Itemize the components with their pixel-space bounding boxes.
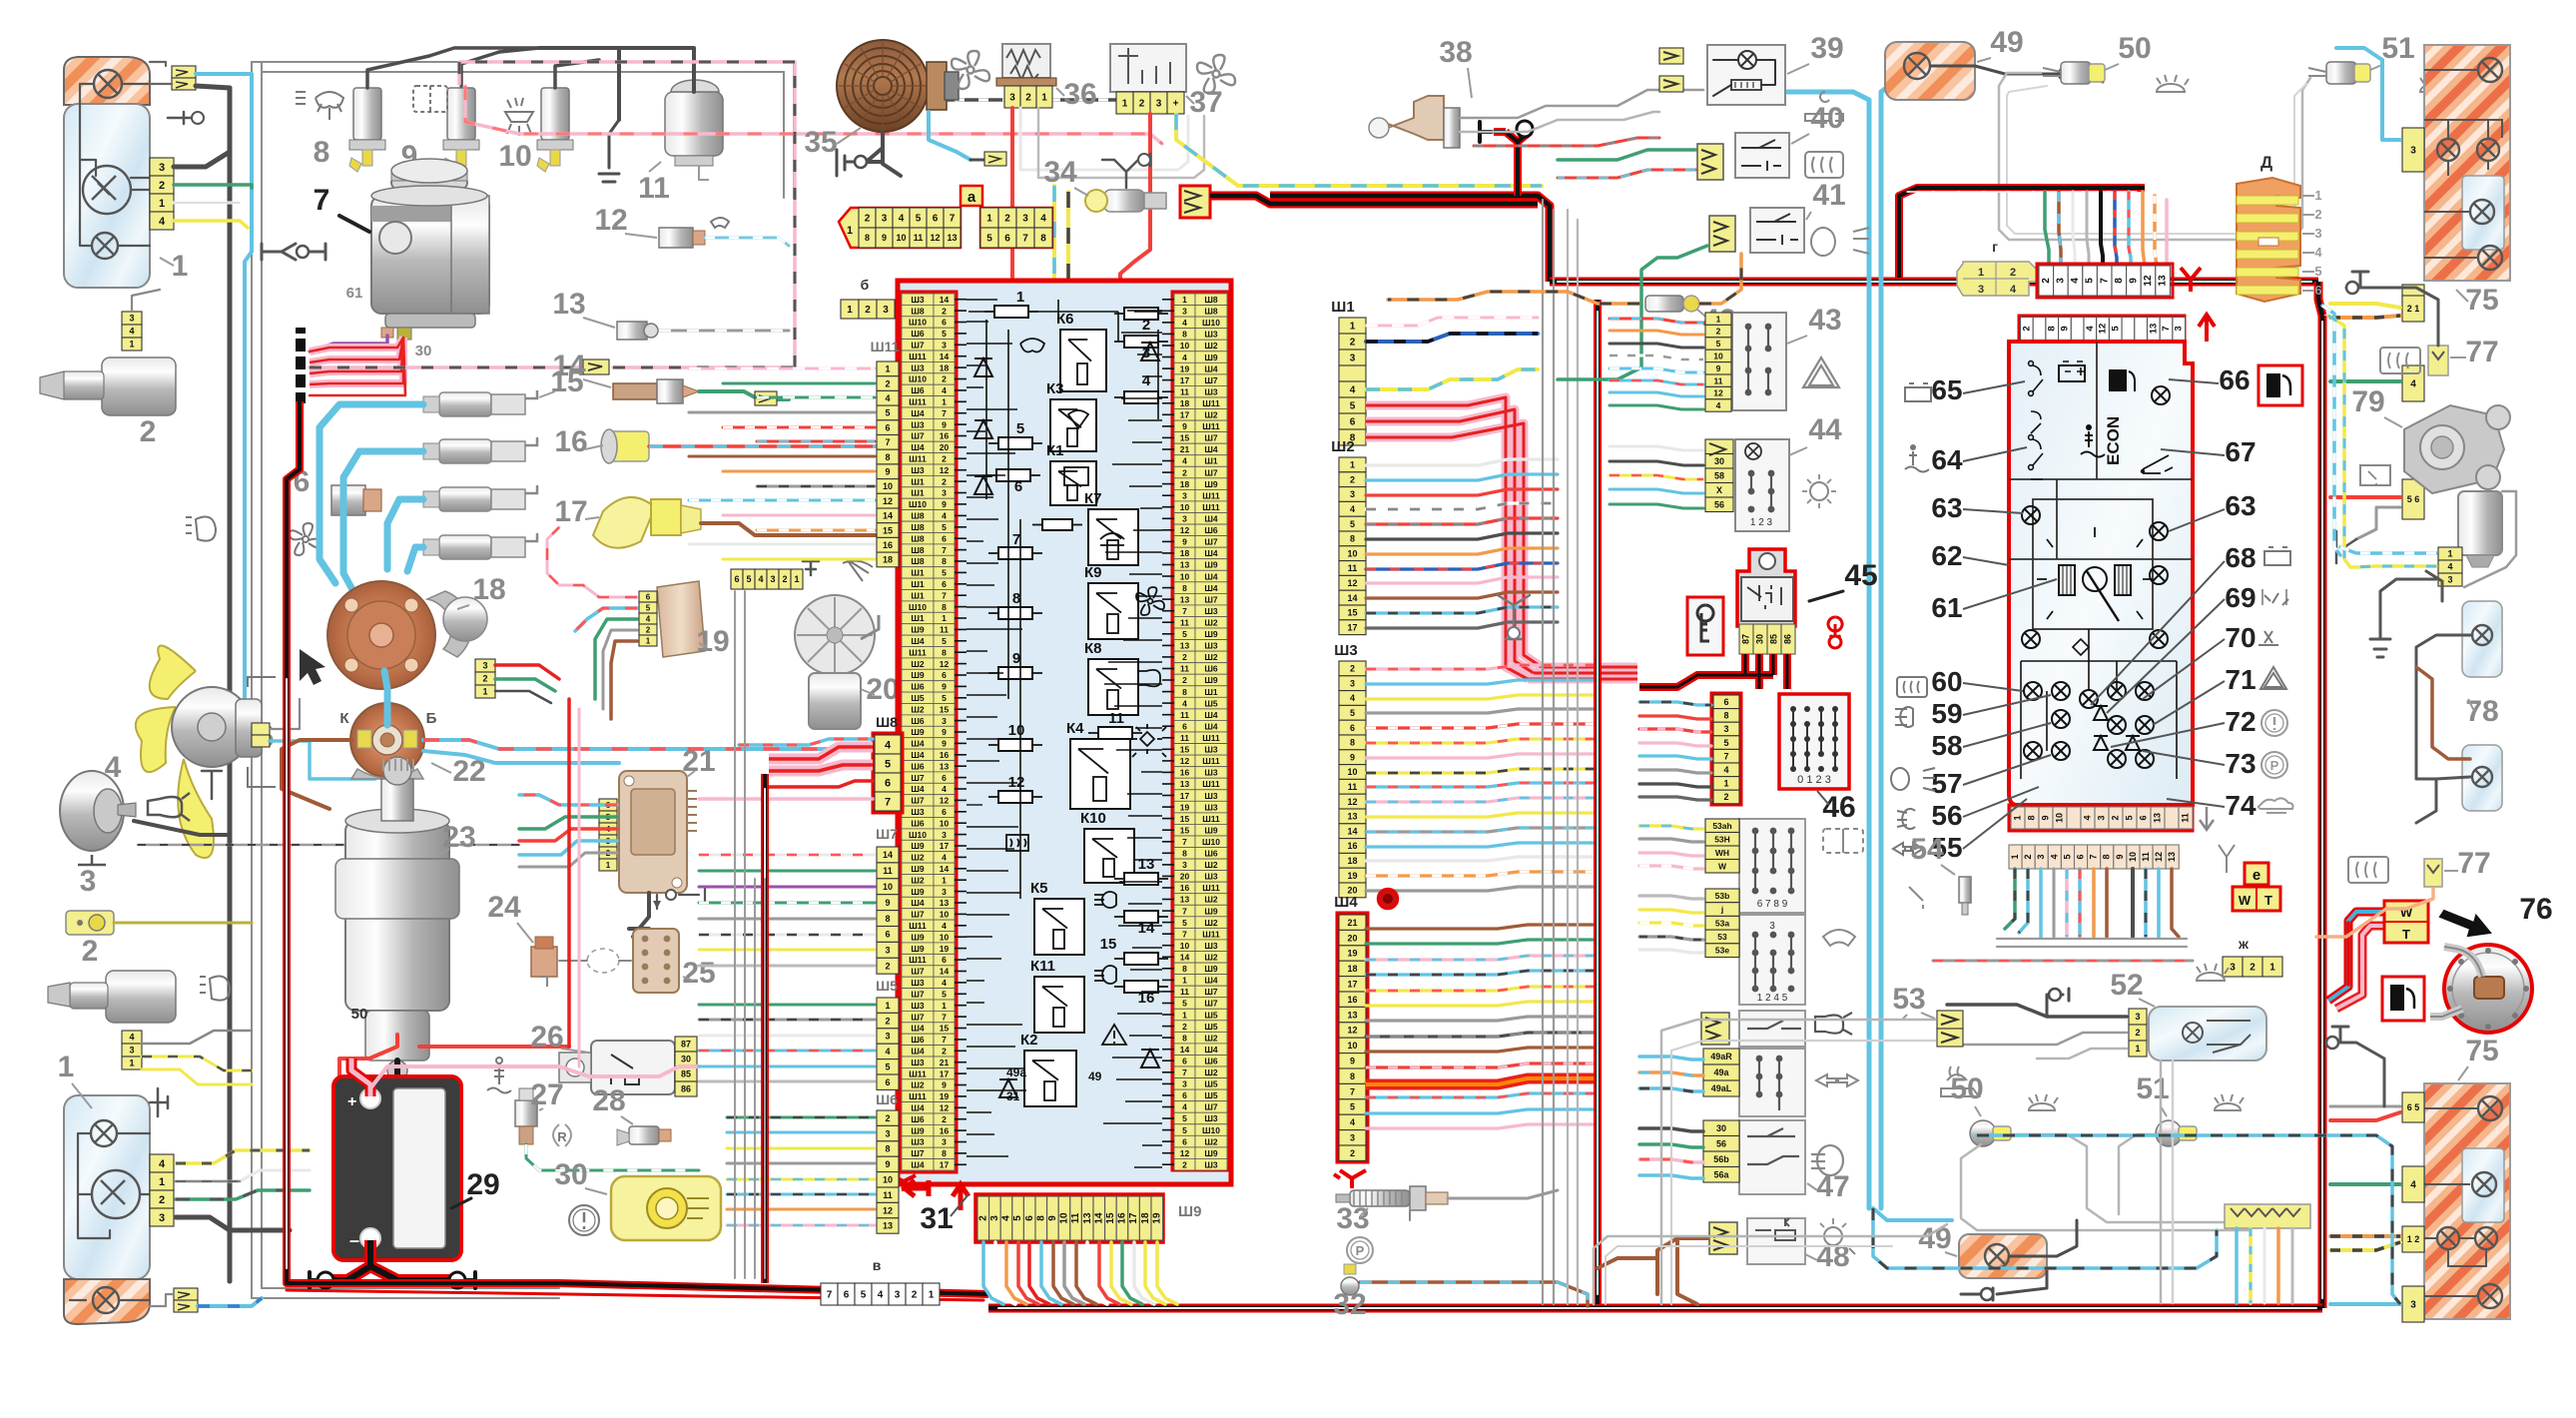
svg-text:4: 4 <box>2049 854 2059 859</box>
svg-text:4: 4 <box>1350 385 1356 396</box>
svg-text:9: 9 <box>1182 537 1187 547</box>
svg-text:14: 14 <box>940 352 950 361</box>
svg-text:3: 3 <box>883 305 889 316</box>
temp icon cluster <box>2081 431 2105 457</box>
svg-text:2: 2 <box>159 1194 165 1206</box>
switch block 44 <box>1735 439 1789 531</box>
fuel sender 76 <box>2444 945 2532 1033</box>
svg-text:1: 1 <box>942 1001 947 1011</box>
svg-text:6: 6 <box>1350 417 1356 428</box>
svg-text:43: 43 <box>1808 304 1841 337</box>
svg-text:79: 79 <box>2351 385 2384 418</box>
svg-text:11: 11 <box>1108 710 1124 727</box>
svg-text:5: 5 <box>885 759 891 771</box>
svg-text:2: 2 <box>865 214 871 225</box>
svg-text:Д: Д <box>2260 153 2272 172</box>
svg-text:Ш2: Ш2 <box>1204 341 1218 351</box>
connector a label <box>961 186 982 206</box>
svg-text:8: 8 <box>885 452 890 462</box>
ground blower <box>837 150 857 176</box>
gray twin vertical center x1545 <box>1543 200 1554 1304</box>
svg-text:6: 6 <box>1182 1057 1187 1066</box>
tail lamp 75 bottom wiring <box>2424 1108 2486 1296</box>
svg-text:Ш4: Ш4 <box>1204 976 1218 986</box>
resistor 36 pins <box>1004 86 1020 108</box>
svg-text:К4: К4 <box>1066 720 1084 737</box>
svg-text:Ш9: Ш9 <box>911 727 925 737</box>
svg-text:Ш4: Ш4 <box>911 1047 925 1057</box>
svg-text:12: 12 <box>883 1205 893 1215</box>
svg-text:12: 12 <box>940 796 950 806</box>
washer icon 8 <box>296 92 343 120</box>
svg-text:56: 56 <box>1931 800 1962 831</box>
svg-text:Ш8: Ш8 <box>1204 307 1218 317</box>
svg-text:3: 3 <box>129 314 134 324</box>
svg-text:7: 7 <box>1182 906 1187 916</box>
arrow cursor <box>300 649 325 685</box>
svg-text:62: 62 <box>1931 540 1962 571</box>
svg-text:1: 1 <box>847 305 853 316</box>
svg-text:4: 4 <box>878 1290 884 1301</box>
svg-text:Ш8: Ш8 <box>911 545 925 555</box>
conn 79 cells <box>2438 547 2462 560</box>
svg-text:Ш1: Ш1 <box>911 590 925 600</box>
svg-text:Ш10: Ш10 <box>1202 1125 1220 1135</box>
wire green from connector 2 <box>174 185 252 188</box>
svg-text:85: 85 <box>1768 634 1778 644</box>
svg-text:12: 12 <box>940 1103 950 1113</box>
svg-text:9: 9 <box>1047 1215 1058 1221</box>
lamp 30 underhood <box>611 1176 721 1240</box>
conn 77 bottom <box>2424 859 2442 887</box>
svg-text:2: 2 <box>942 306 947 316</box>
svg-text:49: 49 <box>1088 1069 1102 1083</box>
starter red wire 50 <box>339 1035 397 1084</box>
svg-text:Ш7: Ш7 <box>1204 999 1218 1009</box>
svg-text:7: 7 <box>2161 326 2172 331</box>
svg-text:W: W <box>1718 861 1727 871</box>
svg-text:3: 3 <box>942 488 947 498</box>
svg-text:Ш10: Ш10 <box>1202 318 1220 328</box>
svg-text:6: 6 <box>1350 723 1355 733</box>
svg-text:53e: 53e <box>1715 946 1729 956</box>
wires 50-51 bottom <box>1961 1144 2264 1230</box>
wires 52 <box>1947 1005 2127 1017</box>
svg-text:Ш11: Ш11 <box>909 397 927 407</box>
svg-text:35: 35 <box>804 126 837 159</box>
wire from 14 green <box>699 391 789 399</box>
svg-text:4: 4 <box>1350 504 1355 514</box>
svg-text:Ш7: Ш7 <box>911 796 925 806</box>
svg-text:10: 10 <box>2128 852 2138 862</box>
switch 40 <box>1735 133 1789 178</box>
cluster gauge needle <box>2083 567 2107 591</box>
svg-text:16: 16 <box>1180 768 1190 778</box>
svg-text:53b: 53b <box>1715 891 1730 901</box>
svg-text:2: 2 <box>1350 664 1355 674</box>
foglamp icon near comp2b <box>210 977 230 1001</box>
connector a grid 2 <box>980 208 1052 248</box>
svg-text:4: 4 <box>885 740 892 752</box>
svg-text:Ш8: Ш8 <box>911 511 925 521</box>
svg-text:Ш2: Ш2 <box>1331 438 1354 455</box>
svg-text:12: 12 <box>2143 275 2154 287</box>
wire yellow from connector 4 <box>174 221 248 228</box>
svg-text:Ш3: Ш3 <box>1204 1113 1218 1123</box>
svg-text:5: 5 <box>1723 738 1728 748</box>
wires 43 <box>1610 319 1703 323</box>
svg-text:1: 1 <box>2135 1044 2140 1054</box>
svg-text:9: 9 <box>2115 854 2125 859</box>
svg-text:10: 10 <box>940 932 950 942</box>
svg-text:10: 10 <box>1180 502 1190 512</box>
svg-text:Ш3: Ш3 <box>1204 606 1218 616</box>
yellow conn 40 <box>1697 144 1723 180</box>
svg-text:1: 1 <box>482 687 487 697</box>
horn switch 47 <box>1739 1011 1805 1047</box>
svg-text:Ш9: Ш9 <box>1204 825 1218 835</box>
svg-text:12: 12 <box>1713 388 1723 398</box>
lamp 34 <box>1104 190 1144 212</box>
dashed circle 25 <box>587 949 619 973</box>
svg-text:Ш7: Ш7 <box>911 431 925 441</box>
svg-text:3: 3 <box>2314 226 2321 241</box>
svg-text:21: 21 <box>1180 444 1190 454</box>
svg-text:К11: К11 <box>1030 958 1055 975</box>
svg-text:5: 5 <box>2085 278 2096 284</box>
svg-text:3: 3 <box>885 1032 890 1042</box>
icon 47 headlight <box>1811 1145 1843 1175</box>
svg-text:86: 86 <box>681 1084 691 1094</box>
bundle bar connector <box>296 328 306 403</box>
wires from Ш2 <box>1366 459 1558 465</box>
svg-text:4: 4 <box>2410 1180 2416 1191</box>
svg-text:Ш9: Ш9 <box>911 1125 925 1135</box>
main harness red-black from alternator <box>559 1283 988 1294</box>
motor 11 washer pump <box>665 92 723 156</box>
svg-text:Ш11: Ш11 <box>1202 814 1220 824</box>
svg-text:39: 39 <box>1810 32 1843 65</box>
cyan wires to comb <box>1873 1208 1952 1220</box>
svg-text:P: P <box>1356 1243 1365 1258</box>
sun icon 50 <box>2157 75 2189 92</box>
svg-text:9: 9 <box>942 419 947 429</box>
svg-text:13: 13 <box>1138 856 1155 873</box>
svg-text:4: 4 <box>942 784 947 794</box>
svg-text:10: 10 <box>2054 813 2064 823</box>
cluster voltmeter contacts <box>2029 361 2043 479</box>
svg-text:13: 13 <box>940 761 950 771</box>
svg-text:Ш3: Ш3 <box>1204 872 1218 882</box>
svg-text:5: 5 <box>942 990 947 1000</box>
svg-text:7: 7 <box>885 437 890 447</box>
svg-text:12: 12 <box>1180 1148 1190 1158</box>
lamp in unit 1 bottom <box>92 233 118 259</box>
svg-text:5: 5 <box>646 603 651 612</box>
svg-text:52: 52 <box>2110 969 2143 1002</box>
svg-text:К3: К3 <box>1046 380 1064 397</box>
svg-text:Ш3: Ш3 <box>1204 386 1218 396</box>
svg-text:2: 2 <box>1350 338 1356 349</box>
svg-text:13: 13 <box>552 288 585 321</box>
R icon 28 <box>553 1124 571 1146</box>
svg-text:21: 21 <box>940 1058 950 1067</box>
svg-text:10: 10 <box>1347 1041 1357 1051</box>
svg-text:4: 4 <box>1182 353 1187 362</box>
fuse block Y symbol <box>892 1175 916 1191</box>
svg-text:Ш9: Ш9 <box>911 841 925 851</box>
svg-text:14: 14 <box>883 850 893 860</box>
wires 79 vertical pair <box>2322 306 2340 555</box>
svg-text:12: 12 <box>2154 852 2164 862</box>
svg-text:1: 1 <box>159 1176 165 1188</box>
svg-text:в: в <box>873 1257 882 1273</box>
svg-text:Ш10: Ш10 <box>909 602 927 612</box>
svg-text:67: 67 <box>2225 436 2255 467</box>
side marker 49 top <box>1885 42 1975 100</box>
ground near ignition switch <box>1498 595 1530 639</box>
wires into Ш8 red bundle <box>769 747 873 771</box>
svg-text:1: 1 <box>646 636 651 645</box>
svg-text:53a: 53a <box>1715 918 1729 928</box>
svg-text:51: 51 <box>2381 32 2414 65</box>
svg-text:2: 2 <box>1723 792 1728 802</box>
svg-text:5: 5 <box>1182 1113 1187 1123</box>
svg-text:77: 77 <box>2457 847 2490 880</box>
coil wires <box>282 740 351 809</box>
svg-text:4: 4 <box>2314 245 2322 260</box>
unit 1b internal wiring <box>70 1133 150 1300</box>
svg-text:17: 17 <box>1128 1212 1139 1224</box>
tail lamp 75 bottom lamps <box>2478 1096 2502 1120</box>
wires 75 bottom <box>2330 1105 2400 1108</box>
svg-text:Ш2: Ш2 <box>1204 410 1218 420</box>
svg-text:Ш9: Ш9 <box>1178 1203 1201 1220</box>
conn 46 cells <box>1711 693 1741 805</box>
svg-text:15: 15 <box>1100 936 1117 953</box>
fan icon B <box>1197 55 1235 93</box>
svg-text:2: 2 <box>82 935 99 968</box>
svg-text:10: 10 <box>1180 571 1190 581</box>
warn icon 30 <box>569 1205 599 1235</box>
svg-text:1: 1 <box>1723 779 1728 789</box>
svg-text:11: 11 <box>1180 733 1189 743</box>
svg-text:2: 2 <box>1182 1022 1187 1032</box>
icon 47 horn <box>1815 1013 1852 1035</box>
cyan long vertical <box>1879 92 1884 1208</box>
tail lamp 75 top wiring <box>2424 70 2502 258</box>
temp icon 27 <box>487 1058 511 1093</box>
wire from comp2 up <box>132 290 160 312</box>
starter black wire to battery+ <box>381 1061 397 1102</box>
svg-text:3: 3 <box>1142 345 1150 361</box>
svg-text:е: е <box>2253 867 2260 884</box>
wire yellow 4 b <box>176 1150 310 1163</box>
connector block 25 <box>633 929 679 993</box>
svg-text:6: 6 <box>646 592 651 601</box>
svg-text:10: 10 <box>498 140 531 173</box>
headlamp unit 1 (bottom-left) glass body <box>64 1095 150 1279</box>
svg-text:4: 4 <box>1716 400 1721 410</box>
spark plug 2 <box>439 439 491 463</box>
svg-text:5: 5 <box>942 329 947 339</box>
svg-text:14: 14 <box>1138 920 1155 937</box>
svg-text:45: 45 <box>1844 559 1877 592</box>
svg-text:10: 10 <box>940 818 950 828</box>
svg-text:30: 30 <box>1716 1123 1726 1133</box>
icon 48 dimmer <box>1824 1227 1842 1245</box>
component 3 inertia switch <box>66 911 114 935</box>
component 2 (bottom) cylinder <box>106 971 176 1023</box>
svg-text:9: 9 <box>882 233 887 243</box>
horn icon <box>148 793 190 821</box>
svg-text:Ш7: Ш7 <box>911 1148 925 1158</box>
svg-text:13: 13 <box>2148 324 2159 335</box>
cluster internal dividers <box>2009 342 2193 629</box>
license lamp 78 A <box>2462 601 2502 677</box>
svg-text:2: 2 <box>942 1114 947 1124</box>
svg-text:14: 14 <box>1347 826 1357 836</box>
svg-text:15: 15 <box>1180 433 1190 443</box>
ground near 654321 <box>803 561 819 575</box>
svg-text:6: 6 <box>885 778 891 790</box>
svg-text:18: 18 <box>1347 964 1357 974</box>
svg-text:2: 2 <box>159 180 165 192</box>
icon oil 74 <box>2258 798 2293 813</box>
svg-text:16: 16 <box>1347 995 1357 1005</box>
sensor 12 oil pressure <box>659 228 693 248</box>
svg-text:37: 37 <box>1189 86 1222 119</box>
license lamp 78 B <box>2462 745 2502 811</box>
svg-text:6: 6 <box>1182 722 1187 732</box>
icon triangle 71 <box>2260 667 2286 689</box>
svg-text:2: 2 <box>1004 214 1010 225</box>
svg-text:5: 5 <box>2314 264 2321 279</box>
svg-text:1: 1 <box>885 364 890 374</box>
yellow conn blower <box>984 152 1006 166</box>
long white wires bottom <box>1594 1224 1947 1304</box>
svg-text:6: 6 <box>2138 815 2148 820</box>
svg-text:7: 7 <box>950 214 956 225</box>
svg-text:Ш7: Ш7 <box>911 990 925 1000</box>
svg-text:9: 9 <box>1350 1057 1355 1066</box>
svg-text:10: 10 <box>940 910 950 920</box>
svg-text:Ш6: Ш6 <box>911 385 925 395</box>
svg-text:13: 13 <box>1180 560 1190 570</box>
cluster lamp 66 <box>2152 386 2170 404</box>
svg-text:Ш8: Ш8 <box>911 522 925 532</box>
white pair 53 to harness <box>1661 1020 1935 1304</box>
svg-text:17: 17 <box>940 841 950 851</box>
svg-text:7: 7 <box>827 1290 833 1301</box>
svg-text:Ш4: Ш4 <box>1204 583 1218 593</box>
svg-text:5: 5 <box>1350 708 1355 718</box>
svg-text:4: 4 <box>758 574 763 584</box>
svg-text:Ш4: Ш4 <box>1204 548 1218 558</box>
svg-text:Ш3: Ш3 <box>1204 1160 1218 1170</box>
svg-text:17: 17 <box>1347 980 1357 990</box>
svg-text:16: 16 <box>883 540 893 550</box>
svg-text:26: 26 <box>530 1021 563 1054</box>
svg-text:3: 3 <box>1182 1079 1187 1089</box>
svg-text:Ш7: Ш7 <box>911 967 925 977</box>
svg-text:8: 8 <box>942 1148 947 1158</box>
svg-text:8: 8 <box>1012 590 1020 607</box>
svg-text:К: К <box>339 710 349 727</box>
alternator 7 body <box>391 169 467 197</box>
svg-text:Ш2: Ш2 <box>1204 1033 1218 1043</box>
svg-text:Ш3: Ш3 <box>911 978 925 988</box>
door switch 51 top <box>2326 62 2356 84</box>
headlamp unit 1 (bottom-left) orange section <box>64 1279 150 1324</box>
P icon 33 <box>1347 1237 1373 1263</box>
svg-text:6: 6 <box>1182 1136 1187 1146</box>
svg-text:Ш9: Ш9 <box>1204 353 1218 362</box>
svg-text:20: 20 <box>940 442 950 452</box>
distributor 18 <box>327 581 435 689</box>
svg-text:Ш8: Ш8 <box>911 306 925 316</box>
svg-text:0 1 2 3: 0 1 2 3 <box>1797 774 1831 786</box>
svg-text:4: 4 <box>2410 379 2416 390</box>
svg-text:20: 20 <box>1347 933 1357 943</box>
main harness red-black vertical left <box>287 401 559 1283</box>
svg-text:Ш6: Ш6 <box>1204 664 1218 674</box>
svg-text:К10: К10 <box>1080 810 1106 827</box>
ground bottom-left <box>150 1088 168 1116</box>
svg-text:2: 2 <box>482 674 487 684</box>
svg-text:Ш3: Ш3 <box>1204 768 1218 778</box>
svg-text:Ш2: Ш2 <box>1204 1136 1218 1146</box>
svg-text:1: 1 <box>2447 549 2452 559</box>
svg-text:Ш3: Ш3 <box>911 1001 925 1011</box>
svg-text:7: 7 <box>1182 837 1187 847</box>
svg-text:1: 1 <box>1350 460 1355 470</box>
cluster lamps mid <box>2022 506 2040 524</box>
svg-text:3: 3 <box>942 887 947 897</box>
svg-text:3: 3 <box>2036 854 2046 859</box>
conn 53 arrows <box>1937 1011 1963 1029</box>
harness red-black center vertical <box>1594 300 1602 1304</box>
component 2 (top) cylinder <box>102 357 176 415</box>
wires 44 <box>1610 446 1703 450</box>
svg-text:8: 8 <box>2114 278 2125 284</box>
conn 47d cells <box>1703 1120 1739 1136</box>
switch block 47c turn <box>1739 1049 1805 1116</box>
wire red pair to dist conn <box>495 665 559 679</box>
svg-text:3: 3 <box>1350 1133 1355 1143</box>
switch block 47a <box>1739 819 1805 913</box>
svg-text:11: 11 <box>1180 664 1189 674</box>
svg-text:16: 16 <box>1180 883 1190 893</box>
antenna symbol right <box>2219 845 2235 873</box>
svg-text:8: 8 <box>1182 583 1187 593</box>
svg-text:12: 12 <box>940 659 950 669</box>
svg-text:Ш1: Ш1 <box>911 613 925 623</box>
svg-text:Ш11: Ш11 <box>1202 779 1220 789</box>
svg-text:13: 13 <box>1347 1010 1357 1020</box>
svg-text:5: 5 <box>2124 815 2134 820</box>
switch block 46 <box>1779 694 1849 789</box>
coil HT cyan wire <box>384 671 387 725</box>
svg-text:58: 58 <box>1931 730 1962 761</box>
svg-text:10: 10 <box>1059 1212 1070 1224</box>
svg-text:30: 30 <box>681 1055 691 1064</box>
svg-text:46: 46 <box>1822 791 1855 824</box>
wire from 13 <box>659 330 789 333</box>
svg-text:Ш9: Ш9 <box>911 864 925 874</box>
svg-text:Ш11: Ш11 <box>909 352 927 361</box>
svg-text:19: 19 <box>1347 949 1357 959</box>
